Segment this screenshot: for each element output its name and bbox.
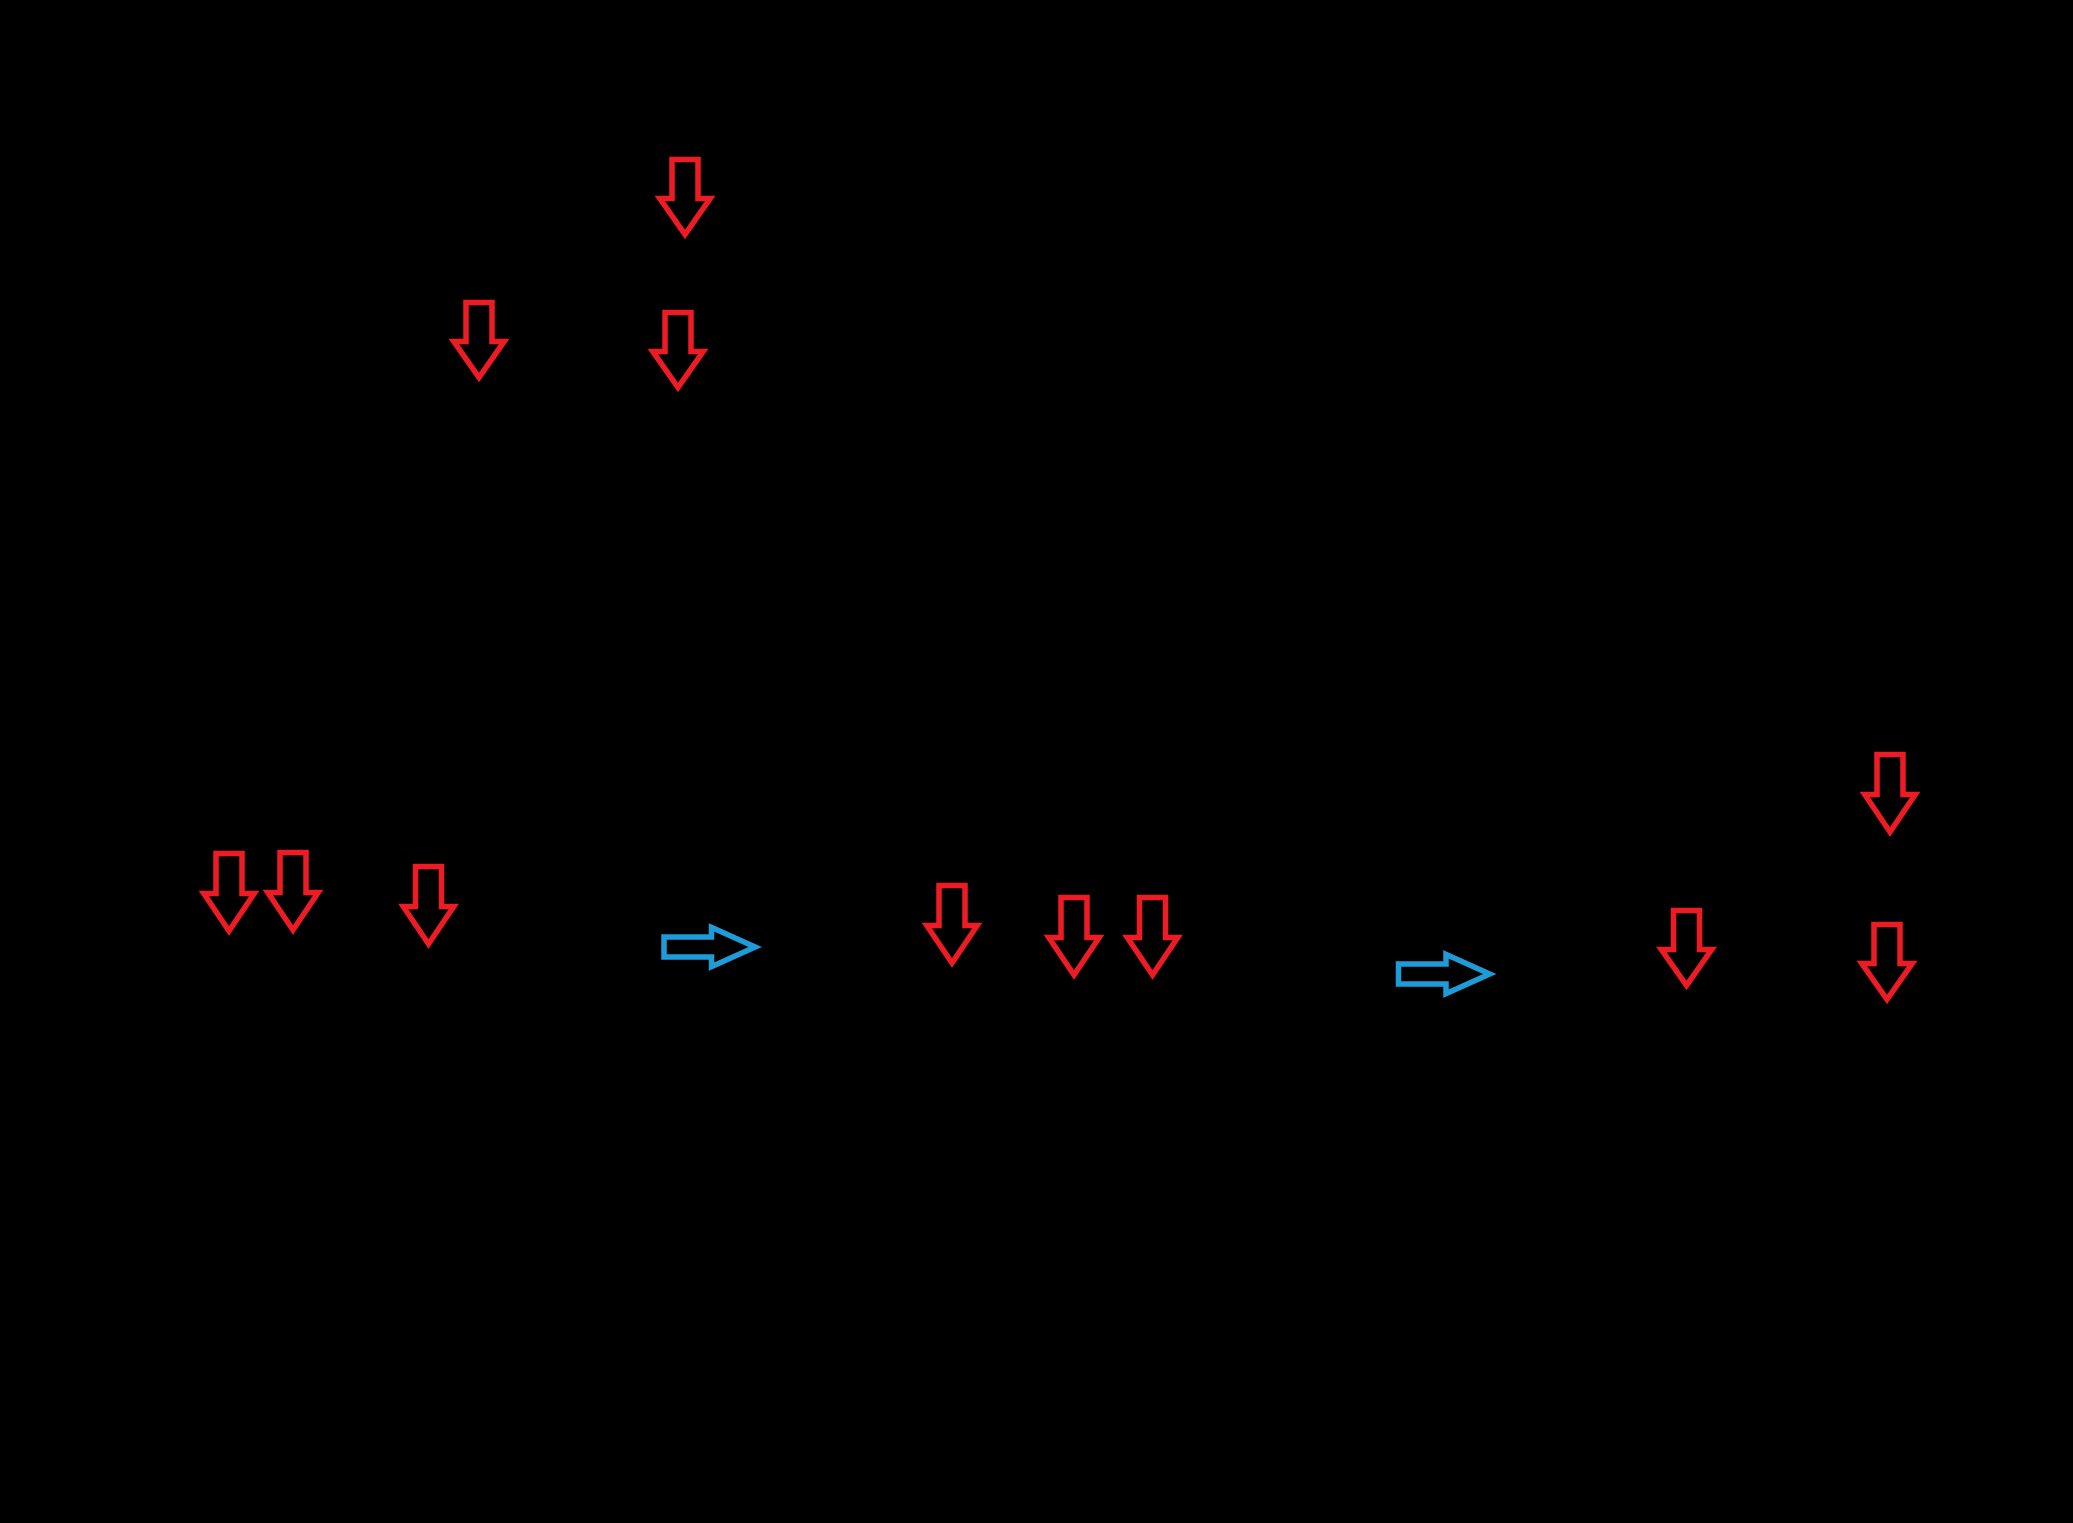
blue right arrow G <box>664 927 755 966</box>
red down arrow E1 (left cluster) <box>204 854 254 932</box>
red down arrow B <box>454 303 504 378</box>
red down arrow C <box>653 313 703 388</box>
red down arrow H2 (middle cluster) <box>1049 898 1099 976</box>
red down arrow H1 (middle cluster) <box>927 886 977 964</box>
red down arrow F <box>403 867 453 945</box>
red down arrow A (top center) <box>660 160 710 235</box>
red down arrow J1 (right cluster) <box>1661 911 1711 986</box>
red down arrow E2 (left cluster) <box>268 853 318 931</box>
blue right arrow I <box>1399 954 1490 993</box>
red down arrow H3 (middle cluster) <box>1127 898 1177 976</box>
red down arrow J2 (right cluster) <box>1862 925 1912 1000</box>
red down arrow D (right upper) <box>1865 755 1915 833</box>
